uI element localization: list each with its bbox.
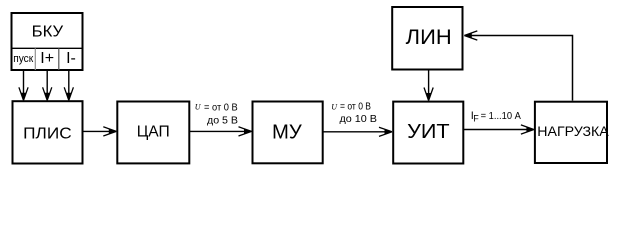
block U4 МУ frame — [253, 102, 323, 164]
block U6 ЛИН frame — [392, 7, 462, 70]
wire БКУ to ПЛИС 3 — [64, 70, 73, 100]
svg-text:до 5 В: до 5 В — [207, 115, 238, 126]
БКУ cell divider 1 — [34, 48, 36, 70]
svg-text:I-: I- — [66, 50, 76, 67]
svg-text:до 10 В: до 10 В — [340, 114, 378, 125]
wire feedback НАГРУЗКА to ЛИН — [464, 31, 572, 101]
wire ЛИН to УИТ — [424, 70, 433, 101]
block U5 УИТ frame — [393, 102, 463, 164]
svg-text:I+: I+ — [40, 50, 54, 67]
block U7 НАГРУЗКА frame — [535, 102, 607, 163]
wire ЦАП to МУ — [189, 127, 251, 136]
block U3 ЦАП frame — [117, 102, 189, 164]
svg-text:= 1...10 А: = 1...10 А — [481, 111, 522, 122]
svg-text:ПЛИС: ПЛИС — [23, 125, 72, 142]
svg-text:УИТ: УИТ — [407, 120, 450, 143]
БКУ internal horizontal divider — [11, 47, 84, 49]
svg-text:= от 0 В: = от 0 В — [340, 102, 371, 113]
svg-text:БКУ: БКУ — [32, 24, 64, 41]
wire БКУ to ПЛИС 2 — [43, 70, 52, 100]
svg-text:НАГРУЗКА: НАГРУЗКА — [537, 123, 609, 139]
svg-text:МУ: МУ — [272, 121, 303, 144]
wire МУ to УИТ — [323, 127, 392, 136]
svg-text:ЛИН: ЛИН — [406, 25, 452, 49]
svg-text:пуск: пуск — [13, 53, 33, 65]
svg-text:F: F — [473, 114, 479, 124]
svg-text:= от 0 В: = от 0 В — [204, 103, 238, 114]
wire УИТ to НАГРУЗКА — [463, 125, 534, 134]
wire БКУ to ПЛИС 1 — [19, 70, 28, 100]
block U2 ПЛИС frame — [13, 101, 83, 163]
wire ПЛИС to ЦАП — [83, 127, 117, 136]
svg-text:ЦАП: ЦАП — [137, 124, 170, 141]
block U1 БКУ frame — [12, 13, 83, 70]
БКУ cell divider 2 — [58, 48, 60, 70]
